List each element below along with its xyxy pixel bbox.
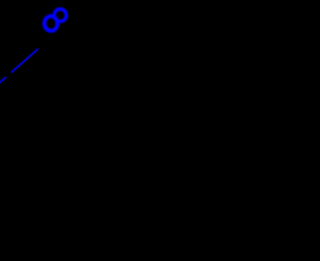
wire: dashed bond short dash segment — [0, 77, 6, 84]
wire: bond long solid segment — [12, 49, 38, 72]
node 8: lower loop of rotated "8" label — [44, 16, 57, 31]
node 8: upper loop of rotated "8" label — [54, 9, 66, 21]
